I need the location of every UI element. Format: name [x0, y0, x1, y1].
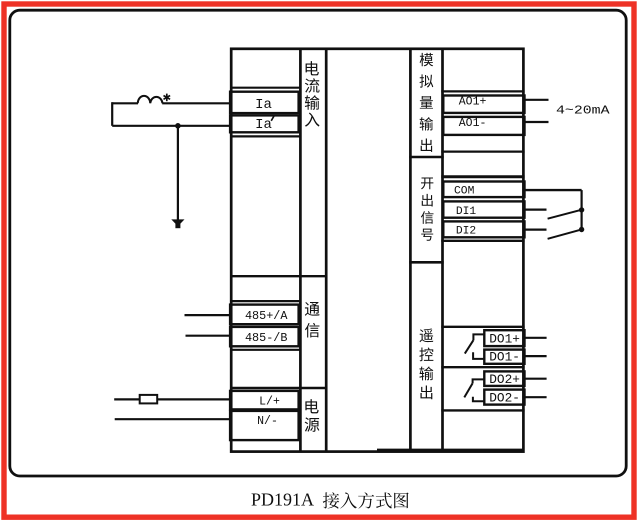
- switch S1 blade: [548, 210, 580, 219]
- cell line: [441, 151, 524, 153]
- svg-text:DO1+: DO1+: [489, 331, 520, 346]
- terminal L/+: [230, 391, 299, 410]
- terminal 485-/B: [230, 327, 299, 346]
- wire Ia top: [112, 102, 231, 104]
- wire 485-/B: [186, 335, 232, 337]
- cell line: [441, 366, 524, 368]
- section divider comm/power: [230, 387, 327, 389]
- svg-text:DI1: DI1: [456, 206, 477, 218]
- cell line: [230, 87, 302, 89]
- svg-text:DO1-: DO1-: [489, 350, 520, 365]
- svg-text:DO2-: DO2-: [489, 391, 520, 406]
- label 通信 (communication): [305, 302, 320, 338]
- right label column divider: [409, 156, 444, 159]
- cell line: [441, 240, 524, 242]
- wire DI bus: [580, 190, 582, 230]
- wire AO1+: [523, 99, 549, 101]
- label 电源 (power): [305, 399, 320, 432]
- terminal N/-: [230, 411, 299, 440]
- svg-text:Ia: Ia: [255, 117, 272, 133]
- wire DO2- stub: [523, 396, 547, 398]
- terminal DI1: [443, 201, 524, 217]
- terminal DO1+: [484, 330, 524, 346]
- terminal AO1+: [443, 96, 524, 113]
- wire DO2+ stub: [523, 378, 547, 380]
- svg-text:PD191A: PD191A: [251, 490, 314, 510]
- right label column right edge: [441, 49, 444, 452]
- cell line: [230, 349, 302, 351]
- wire DI2 stub: [523, 229, 547, 231]
- svg-text:485-/B: 485-/B: [245, 331, 287, 345]
- wire L/+: [114, 398, 231, 400]
- terminal Ia': [230, 115, 299, 132]
- cell line: [441, 326, 524, 328]
- left label column left edge: [299, 49, 302, 452]
- terminal Ia: [230, 92, 299, 113]
- svg-text:N/-: N/-: [257, 415, 278, 428]
- ground arrow: [171, 219, 184, 228]
- relay contact K1: [465, 334, 486, 359]
- cell line: [230, 300, 302, 302]
- wire Ia' bottom: [112, 125, 231, 127]
- right label column divider: [409, 261, 444, 264]
- wire DO1+ stub: [523, 337, 547, 339]
- label 遥控输出 (remote control output): [419, 329, 433, 400]
- terminal 485+/A: [230, 305, 299, 325]
- wire to ground: [177, 126, 179, 220]
- junction dot: [175, 123, 181, 129]
- wire N/-: [115, 418, 232, 420]
- fuse F1: [140, 395, 158, 404]
- junction dot DI2: [579, 227, 584, 232]
- label 电流输入 (current input): [305, 61, 320, 126]
- CT coil winding: [138, 96, 163, 103]
- svg-text:Ia: Ia: [255, 97, 272, 113]
- svg-text:485+/A: 485+/A: [245, 309, 288, 323]
- label 开出信号 (switch output signal): [421, 177, 434, 240]
- terminal AO1-: [443, 117, 524, 135]
- svg-text:L/+: L/+: [259, 396, 280, 409]
- bottom inner step line: [377, 449, 523, 451]
- cell line: [441, 175, 524, 178]
- left label column right edge: [325, 49, 328, 452]
- cell line: [441, 90, 524, 92]
- junction dot DI1: [579, 207, 584, 212]
- polarity mark *: [164, 94, 171, 102]
- switch S2 blade: [548, 230, 581, 239]
- relay contact K2: [464, 379, 484, 401]
- caption PD191A: [251, 490, 409, 510]
- wire AO1-: [523, 121, 549, 123]
- svg-text:AO1-: AO1-: [459, 117, 487, 130]
- terminal DO1-: [484, 350, 524, 365]
- svg-text:AO1+: AO1+: [459, 96, 487, 109]
- terminal DO2+: [484, 371, 524, 387]
- wire DO1- stub: [523, 355, 547, 357]
- cell line: [230, 135, 302, 137]
- right label column left edge: [409, 49, 412, 452]
- svg-text:4~20mA: 4~20mA: [556, 103, 610, 117]
- wire left drop: [111, 102, 113, 126]
- section divider current/comm: [230, 275, 327, 277]
- svg-text:DO2+: DO2+: [489, 372, 520, 387]
- terminal DI2: [443, 221, 524, 237]
- label 4~20mA: [556, 103, 610, 117]
- wire 485+/A: [185, 314, 232, 316]
- device outline PD191A: [231, 49, 523, 452]
- wire DI1 stub: [523, 209, 547, 211]
- terminal DO2-: [484, 390, 524, 406]
- wire COM: [523, 189, 582, 191]
- label 模拟量输出 (analog output): [420, 53, 434, 152]
- cell line: [441, 409, 524, 411]
- svg-text:DI2: DI2: [456, 226, 476, 238]
- svg-text:COM: COM: [454, 186, 475, 198]
- terminal COM: [443, 182, 524, 198]
